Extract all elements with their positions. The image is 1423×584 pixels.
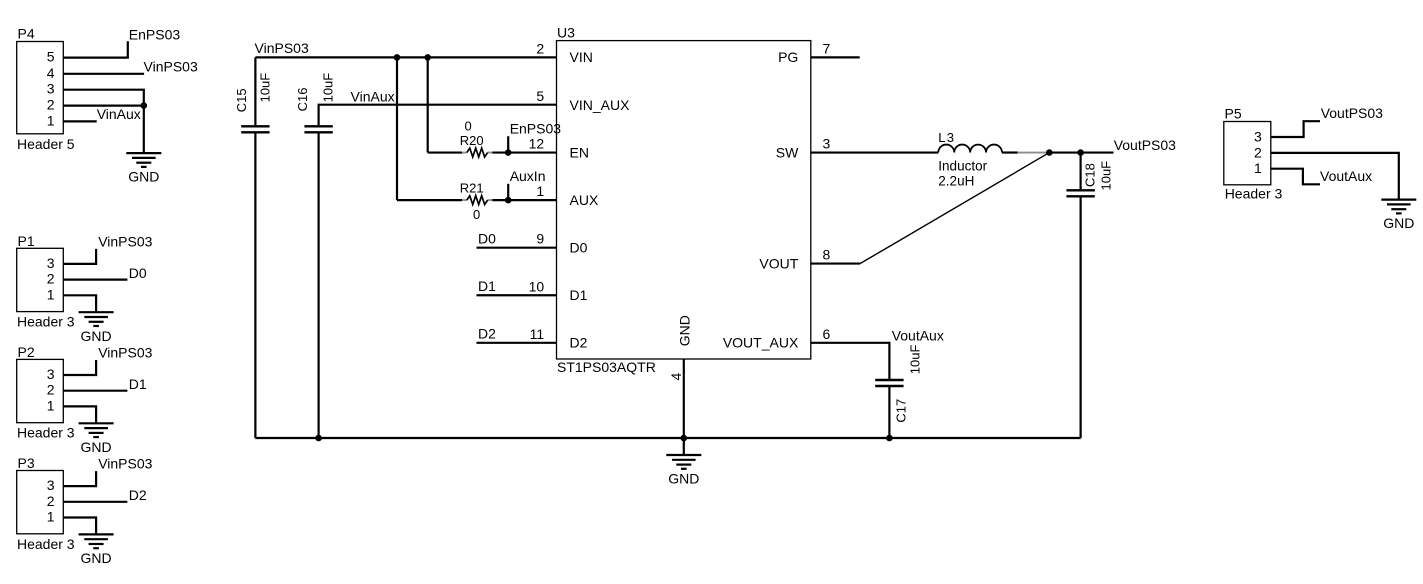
svg-text:2: 2 — [47, 271, 55, 287]
svg-text:0: 0 — [473, 207, 480, 222]
svg-text:VinAux: VinAux — [351, 89, 395, 105]
svg-text:0: 0 — [465, 119, 472, 134]
svg-text:1: 1 — [47, 397, 55, 413]
svg-text:P2: P2 — [18, 344, 35, 360]
svg-text:2.2uH: 2.2uH — [938, 174, 974, 189]
svg-text:Header 3: Header 3 — [17, 425, 75, 441]
svg-text:2: 2 — [536, 40, 544, 56]
svg-text:VIN: VIN — [570, 49, 593, 65]
svg-text:GND: GND — [676, 315, 692, 346]
svg-text:10: 10 — [529, 278, 545, 294]
svg-text:7: 7 — [823, 40, 831, 56]
svg-text:VoutAux: VoutAux — [1320, 168, 1372, 184]
svg-text:GND: GND — [81, 439, 112, 455]
svg-text:5: 5 — [47, 49, 55, 65]
svg-text:D1: D1 — [478, 278, 496, 294]
svg-text:VOUT: VOUT — [759, 255, 798, 271]
svg-text:EnPS03: EnPS03 — [129, 26, 181, 42]
svg-text:1: 1 — [536, 183, 544, 199]
svg-text:GND: GND — [128, 169, 159, 185]
svg-text:10uF: 10uF — [1099, 161, 1114, 191]
svg-text:5: 5 — [536, 88, 544, 104]
svg-text:8: 8 — [823, 247, 831, 263]
svg-text:GND: GND — [1383, 215, 1414, 231]
svg-text:VinPS03: VinPS03 — [98, 345, 152, 361]
svg-text:1: 1 — [47, 509, 55, 525]
svg-text:SW: SW — [776, 144, 799, 160]
svg-text:10uF: 10uF — [257, 73, 272, 103]
svg-text:10uF: 10uF — [321, 73, 336, 103]
svg-text:R20: R20 — [460, 133, 484, 148]
svg-text:2: 2 — [1254, 144, 1262, 160]
svg-text:D2: D2 — [129, 487, 147, 503]
svg-text:GND: GND — [668, 471, 699, 487]
svg-text:Inductor: Inductor — [938, 159, 987, 174]
svg-text:3: 3 — [47, 477, 55, 493]
svg-text:3: 3 — [823, 136, 831, 152]
svg-text:EnPS03: EnPS03 — [510, 120, 562, 136]
svg-text:P1: P1 — [18, 233, 35, 249]
svg-text:2: 2 — [47, 97, 55, 113]
svg-text:GND: GND — [81, 550, 112, 566]
svg-text:C17: C17 — [894, 399, 909, 423]
svg-text:3: 3 — [1254, 128, 1262, 144]
svg-text:Header 3: Header 3 — [1225, 185, 1283, 201]
svg-text:VinPS03: VinPS03 — [98, 233, 152, 249]
svg-text:D2: D2 — [478, 326, 496, 342]
svg-text:AUX: AUX — [570, 192, 599, 208]
svg-text:VinAux: VinAux — [97, 106, 141, 122]
svg-text:4: 4 — [668, 373, 684, 381]
svg-text:VoutPS03: VoutPS03 — [1114, 137, 1176, 153]
svg-text:C15: C15 — [234, 88, 249, 112]
svg-text:C16: C16 — [295, 88, 310, 112]
svg-text:12: 12 — [529, 136, 545, 152]
svg-text:10uF: 10uF — [908, 345, 923, 375]
svg-text:ST1PS03AQTR: ST1PS03AQTR — [557, 359, 656, 375]
svg-text:VinPS03: VinPS03 — [255, 40, 309, 56]
svg-text:Header 3: Header 3 — [17, 314, 75, 330]
svg-text:VinPS03: VinPS03 — [144, 58, 198, 74]
svg-text:VoutAux: VoutAux — [892, 328, 944, 344]
svg-text:VoutPS03: VoutPS03 — [1321, 105, 1383, 121]
svg-text:2: 2 — [47, 493, 55, 509]
svg-text:VinPS03: VinPS03 — [98, 456, 152, 472]
svg-text:P4: P4 — [18, 26, 35, 42]
svg-text:AuxIn: AuxIn — [510, 168, 546, 184]
svg-text:1: 1 — [47, 286, 55, 302]
svg-text:3: 3 — [47, 81, 55, 97]
svg-text:6: 6 — [823, 326, 831, 342]
svg-text:D2: D2 — [570, 335, 588, 351]
svg-text:C18: C18 — [1083, 163, 1098, 187]
svg-text:R21: R21 — [460, 180, 484, 195]
svg-text:D1: D1 — [570, 287, 588, 303]
svg-text:1: 1 — [47, 112, 55, 128]
svg-text:D0: D0 — [478, 230, 496, 246]
svg-text:4: 4 — [47, 65, 55, 81]
svg-text:VIN_AUX: VIN_AUX — [570, 97, 631, 113]
svg-text:P5: P5 — [1225, 105, 1242, 121]
svg-text:D1: D1 — [129, 376, 147, 392]
svg-text:Header 5: Header 5 — [17, 136, 75, 152]
svg-text:P3: P3 — [18, 455, 35, 471]
svg-text:PG: PG — [778, 49, 798, 65]
svg-text:L3: L3 — [938, 130, 955, 145]
svg-text:3: 3 — [47, 366, 55, 382]
svg-text:3: 3 — [47, 255, 55, 271]
svg-text:VOUT_AUX: VOUT_AUX — [723, 335, 799, 351]
svg-text:9: 9 — [536, 231, 544, 247]
svg-text:D0: D0 — [570, 239, 588, 255]
svg-text:EN: EN — [570, 144, 589, 160]
svg-text:2: 2 — [47, 382, 55, 398]
svg-text:Header 3: Header 3 — [17, 536, 75, 552]
svg-text:1: 1 — [1254, 160, 1262, 176]
svg-text:11: 11 — [530, 326, 545, 342]
svg-text:U3: U3 — [557, 25, 575, 41]
svg-text:GND: GND — [81, 328, 112, 344]
svg-text:D0: D0 — [129, 265, 147, 281]
